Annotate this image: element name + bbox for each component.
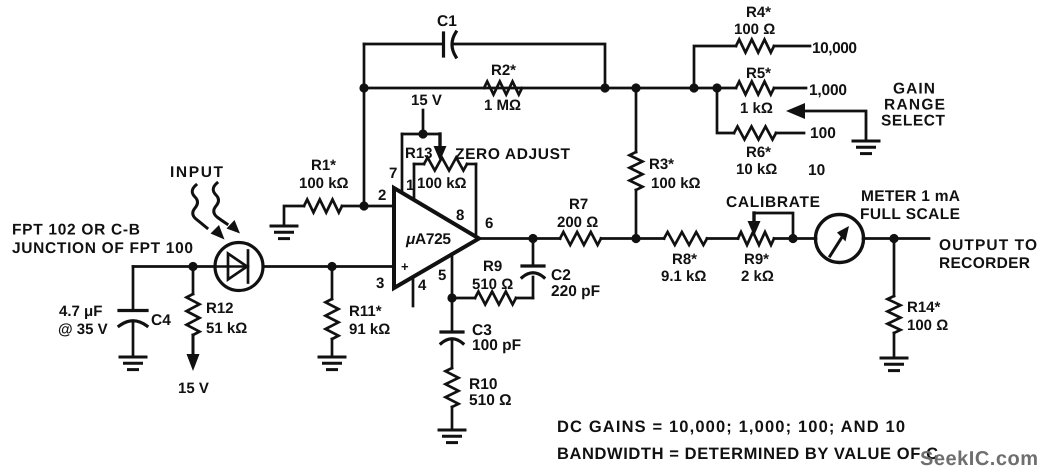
svg-text:R6*: R6* xyxy=(746,144,771,161)
label R1 value xyxy=(299,157,349,192)
svg-text:15 V: 15 V xyxy=(411,92,442,109)
svg-text:1 MΩ: 1 MΩ xyxy=(484,97,521,114)
node pin5 junction xyxy=(447,293,456,302)
svg-text:RANGE: RANGE xyxy=(884,97,945,114)
pin number 5 xyxy=(438,267,446,284)
wire input line left segment xyxy=(133,265,215,268)
svg-text:R4*: R4* xyxy=(746,4,771,21)
svg-text:100 kΩ: 100 kΩ xyxy=(651,175,701,192)
pin number 8 xyxy=(456,207,464,224)
node feedback-R2 junction xyxy=(359,83,368,92)
pin number 2 xyxy=(378,187,386,204)
svg-text:INPUT: INPUT xyxy=(170,164,224,181)
label R5 value xyxy=(740,65,773,117)
wire R2 line xyxy=(364,87,736,90)
wire R7 to R8 xyxy=(601,237,664,240)
pin 4 stub xyxy=(412,277,415,306)
svg-text:200 Ω: 200 Ω xyxy=(557,214,598,231)
label C4 xyxy=(151,312,171,329)
svg-text:51 kΩ: 51 kΩ xyxy=(206,320,247,337)
svg-text:10,000: 10,000 xyxy=(812,40,857,57)
label R2 value xyxy=(484,62,521,114)
wire R6 lead xyxy=(776,132,804,135)
svg-text:2 kΩ: 2 kΩ xyxy=(741,268,774,285)
svg-text:100 Ω: 100 Ω xyxy=(734,21,775,38)
wire C1 top right xyxy=(453,44,605,88)
svg-text:JUNCTION OF FPT 100: JUNCTION OF FPT 100 xyxy=(12,240,193,257)
svg-text:R7: R7 xyxy=(569,196,588,213)
watermark SeekIC xyxy=(920,448,1038,470)
resistor R5 xyxy=(736,82,774,95)
svg-text:C1: C1 xyxy=(437,13,457,30)
svg-text:DC GAINS = 10,000; 1,000; 100;: DC GAINS = 10,000; 1,000; 100; AND 10 xyxy=(557,418,905,436)
svg-text:R13: R13 xyxy=(405,145,433,162)
calibrate wiper xyxy=(748,213,794,239)
resistor R2 xyxy=(484,82,522,95)
label C1 xyxy=(437,13,457,30)
zero adjust 15V feed xyxy=(402,110,447,161)
svg-text:FPT 102 OR C-B: FPT 102 OR C-B xyxy=(12,222,140,239)
ground under C4 xyxy=(120,357,146,370)
wire meter to output xyxy=(863,237,929,240)
wire R6 drop xyxy=(717,88,734,133)
photodiode D1 xyxy=(215,243,263,291)
svg-text:R1*: R1* xyxy=(311,157,336,174)
pin 7 line xyxy=(401,134,404,192)
label 100 terminal xyxy=(810,125,836,142)
svg-text:CALIBRATE: CALIBRATE xyxy=(726,194,820,211)
label R12 value xyxy=(206,300,247,337)
label OUTPUT TO RECORDER xyxy=(939,237,1037,272)
pin number 7 xyxy=(389,165,397,182)
svg-text:R3*: R3* xyxy=(649,156,674,173)
resistor R7 xyxy=(560,232,601,245)
svg-text:100: 100 xyxy=(810,125,836,142)
label 10000 terminal xyxy=(812,40,857,57)
label 10 terminal xyxy=(808,162,825,179)
label R6 value xyxy=(736,144,777,178)
label FPT xyxy=(12,222,193,258)
wire R1 left lead to ground xyxy=(284,206,304,225)
potentiometer R13 xyxy=(414,158,476,171)
svg-text:C2: C2 xyxy=(551,267,571,284)
capacitor C3 xyxy=(441,298,463,368)
gain select arrow xyxy=(786,103,866,140)
svg-text:6: 6 xyxy=(485,215,493,232)
svg-text:1 kΩ: 1 kΩ xyxy=(740,100,773,117)
node R14 junction xyxy=(889,234,898,243)
svg-text:R5*: R5* xyxy=(746,65,771,82)
ground gain select xyxy=(853,141,879,154)
svg-text:μA725: μA725 xyxy=(405,231,451,248)
label 15V below R12 xyxy=(178,380,209,397)
svg-text:15 V: 15 V xyxy=(178,380,209,397)
label R10 value xyxy=(469,376,512,409)
svg-text:10 kΩ: 10 kΩ xyxy=(736,161,777,178)
svg-text:9.1 kΩ: 9.1 kΩ xyxy=(661,268,706,285)
pin 1 line xyxy=(413,164,416,199)
resistor R10 xyxy=(446,368,459,430)
label R14 value xyxy=(907,299,948,334)
ground under R11 xyxy=(319,357,345,370)
label METER xyxy=(860,188,960,223)
supply arrow 15V below R12 xyxy=(187,335,200,371)
svg-text:R2*: R2* xyxy=(491,62,516,79)
label R9pot value xyxy=(741,251,774,285)
resistor R4 xyxy=(736,40,774,53)
label R11 value xyxy=(349,303,390,338)
svg-text:100 Ω: 100 Ω xyxy=(907,317,948,334)
svg-text:R11*: R11* xyxy=(349,303,382,320)
resistor R8 xyxy=(664,232,707,245)
svg-text:BANDWIDTH = DETERMINED BY VALU: BANDWIDTH = DETERMINED BY VALUE OF C xyxy=(557,445,938,463)
resistor R14 xyxy=(888,239,901,359)
svg-text:7: 7 xyxy=(389,165,397,182)
svg-text:5: 5 xyxy=(438,267,446,284)
label C3 value xyxy=(472,322,521,354)
node input-R12 junction xyxy=(188,262,197,271)
svg-text:100 kΩ: 100 kΩ xyxy=(299,175,349,192)
node calibrate junction xyxy=(788,234,797,243)
svg-text:3: 3 xyxy=(376,275,384,292)
light arrow 2 xyxy=(213,183,240,234)
node C2 top junction xyxy=(528,234,537,243)
label R8 value xyxy=(661,251,706,285)
capacitor C4 xyxy=(119,267,147,358)
svg-text:220 pF: 220 pF xyxy=(551,283,600,300)
capacitor C1 xyxy=(444,32,457,57)
label R13 xyxy=(405,145,433,162)
wire R4 lead xyxy=(774,45,810,48)
svg-text:R9*: R9* xyxy=(744,251,769,268)
wire pin2 xyxy=(342,205,394,208)
svg-text:FULL SCALE: FULL SCALE xyxy=(860,206,960,223)
note bandwidth xyxy=(557,445,938,463)
wire R11 to ground xyxy=(331,339,334,357)
svg-text:91 kΩ: 91 kΩ xyxy=(349,321,390,338)
label C2 value xyxy=(551,267,600,300)
svg-text:RECORDER: RECORDER xyxy=(939,255,1030,272)
label GAIN RANGE SELECT xyxy=(881,81,946,130)
svg-text:4.7 μF: 4.7 μF xyxy=(59,303,102,320)
svg-text:C4: C4 xyxy=(151,312,171,329)
svg-text:1: 1 xyxy=(406,177,414,194)
node R5 junction xyxy=(712,83,721,92)
ground under R14 xyxy=(881,358,907,371)
node R4 riser junction xyxy=(689,83,698,92)
svg-text:SELECT: SELECT xyxy=(881,113,946,130)
wire R5 lead xyxy=(774,87,806,90)
label 1000 terminal xyxy=(809,82,847,99)
svg-text:METER 1 mA: METER 1 mA xyxy=(861,188,960,205)
svg-text:R12: R12 xyxy=(206,300,234,317)
svg-text:ZERO ADJUST: ZERO ADJUST xyxy=(455,146,571,163)
resistor R6 xyxy=(734,127,776,140)
light arrow 1 xyxy=(192,185,224,240)
svg-text:@ 35 V: @ 35 V xyxy=(58,321,108,338)
svg-text:R10: R10 xyxy=(469,376,497,393)
svg-text:10: 10 xyxy=(808,162,825,179)
pin number 6 xyxy=(485,215,493,232)
label R9 value xyxy=(472,258,513,293)
svg-text:510 Ω: 510 Ω xyxy=(469,392,512,409)
wire R8 to R9pot xyxy=(707,237,738,240)
node R2-C1 right junction xyxy=(600,83,609,92)
svg-text:100 kΩ: 100 kΩ xyxy=(417,175,467,192)
pin number 3 xyxy=(376,275,384,292)
wire pot to meter xyxy=(774,237,816,240)
pin number 4 xyxy=(418,277,427,294)
svg-text:8: 8 xyxy=(456,207,464,224)
note DC gains xyxy=(557,418,905,436)
svg-text:510 Ω: 510 Ω xyxy=(472,276,513,293)
label R13 value xyxy=(417,175,467,192)
svg-text:R8*: R8* xyxy=(672,251,697,268)
svg-text:GAIN: GAIN xyxy=(893,81,935,98)
label C4 value xyxy=(58,303,108,338)
capacitor C2 xyxy=(522,239,544,299)
ground under R1 xyxy=(271,226,297,239)
svg-text:1,000: 1,000 xyxy=(809,82,847,99)
svg-text:4: 4 xyxy=(418,277,427,294)
wire input line right segment xyxy=(263,265,394,268)
wire R4 riser xyxy=(694,46,736,88)
svg-text:SeekIC.com: SeekIC.com xyxy=(920,448,1038,470)
label R4 value xyxy=(734,4,775,38)
svg-text:+: + xyxy=(401,259,409,274)
pin 8 line xyxy=(475,164,478,234)
wire feedback vertical xyxy=(363,44,366,206)
label INPUT xyxy=(170,164,224,181)
resistor R11 xyxy=(326,267,339,340)
svg-text:OUTPUT TO: OUTPUT TO xyxy=(939,237,1037,254)
svg-text:R9: R9 xyxy=(483,258,502,275)
resistor R1 xyxy=(304,200,342,213)
pin 5 line xyxy=(451,254,454,298)
svg-text:100 pF: 100 pF xyxy=(472,337,521,354)
meter M1 xyxy=(816,215,864,263)
op-amp U1 uA725 xyxy=(394,188,479,288)
resistor R3 xyxy=(630,88,643,239)
node feedback-pin2 junction xyxy=(359,201,368,210)
node R3 top junction xyxy=(631,83,640,92)
label R3 value xyxy=(649,156,701,192)
label ZERO ADJUST xyxy=(455,146,571,163)
label R7 value xyxy=(557,196,598,231)
wire op-amp output xyxy=(479,237,560,240)
label 15V zero adjust xyxy=(411,92,442,109)
node R3 bottom junction xyxy=(631,234,640,243)
ground under R10 xyxy=(439,430,465,443)
svg-text:2: 2 xyxy=(378,187,386,204)
resistor R9 xyxy=(452,292,533,305)
node R11 junction xyxy=(327,262,336,271)
svg-text:R14*: R14* xyxy=(907,299,941,316)
pin number 1 xyxy=(406,177,414,194)
resistor R12 xyxy=(187,267,200,336)
wire C1 top left xyxy=(364,43,443,46)
potentiometer R9 calibrate xyxy=(738,232,774,245)
label CALIBRATE xyxy=(726,194,820,211)
